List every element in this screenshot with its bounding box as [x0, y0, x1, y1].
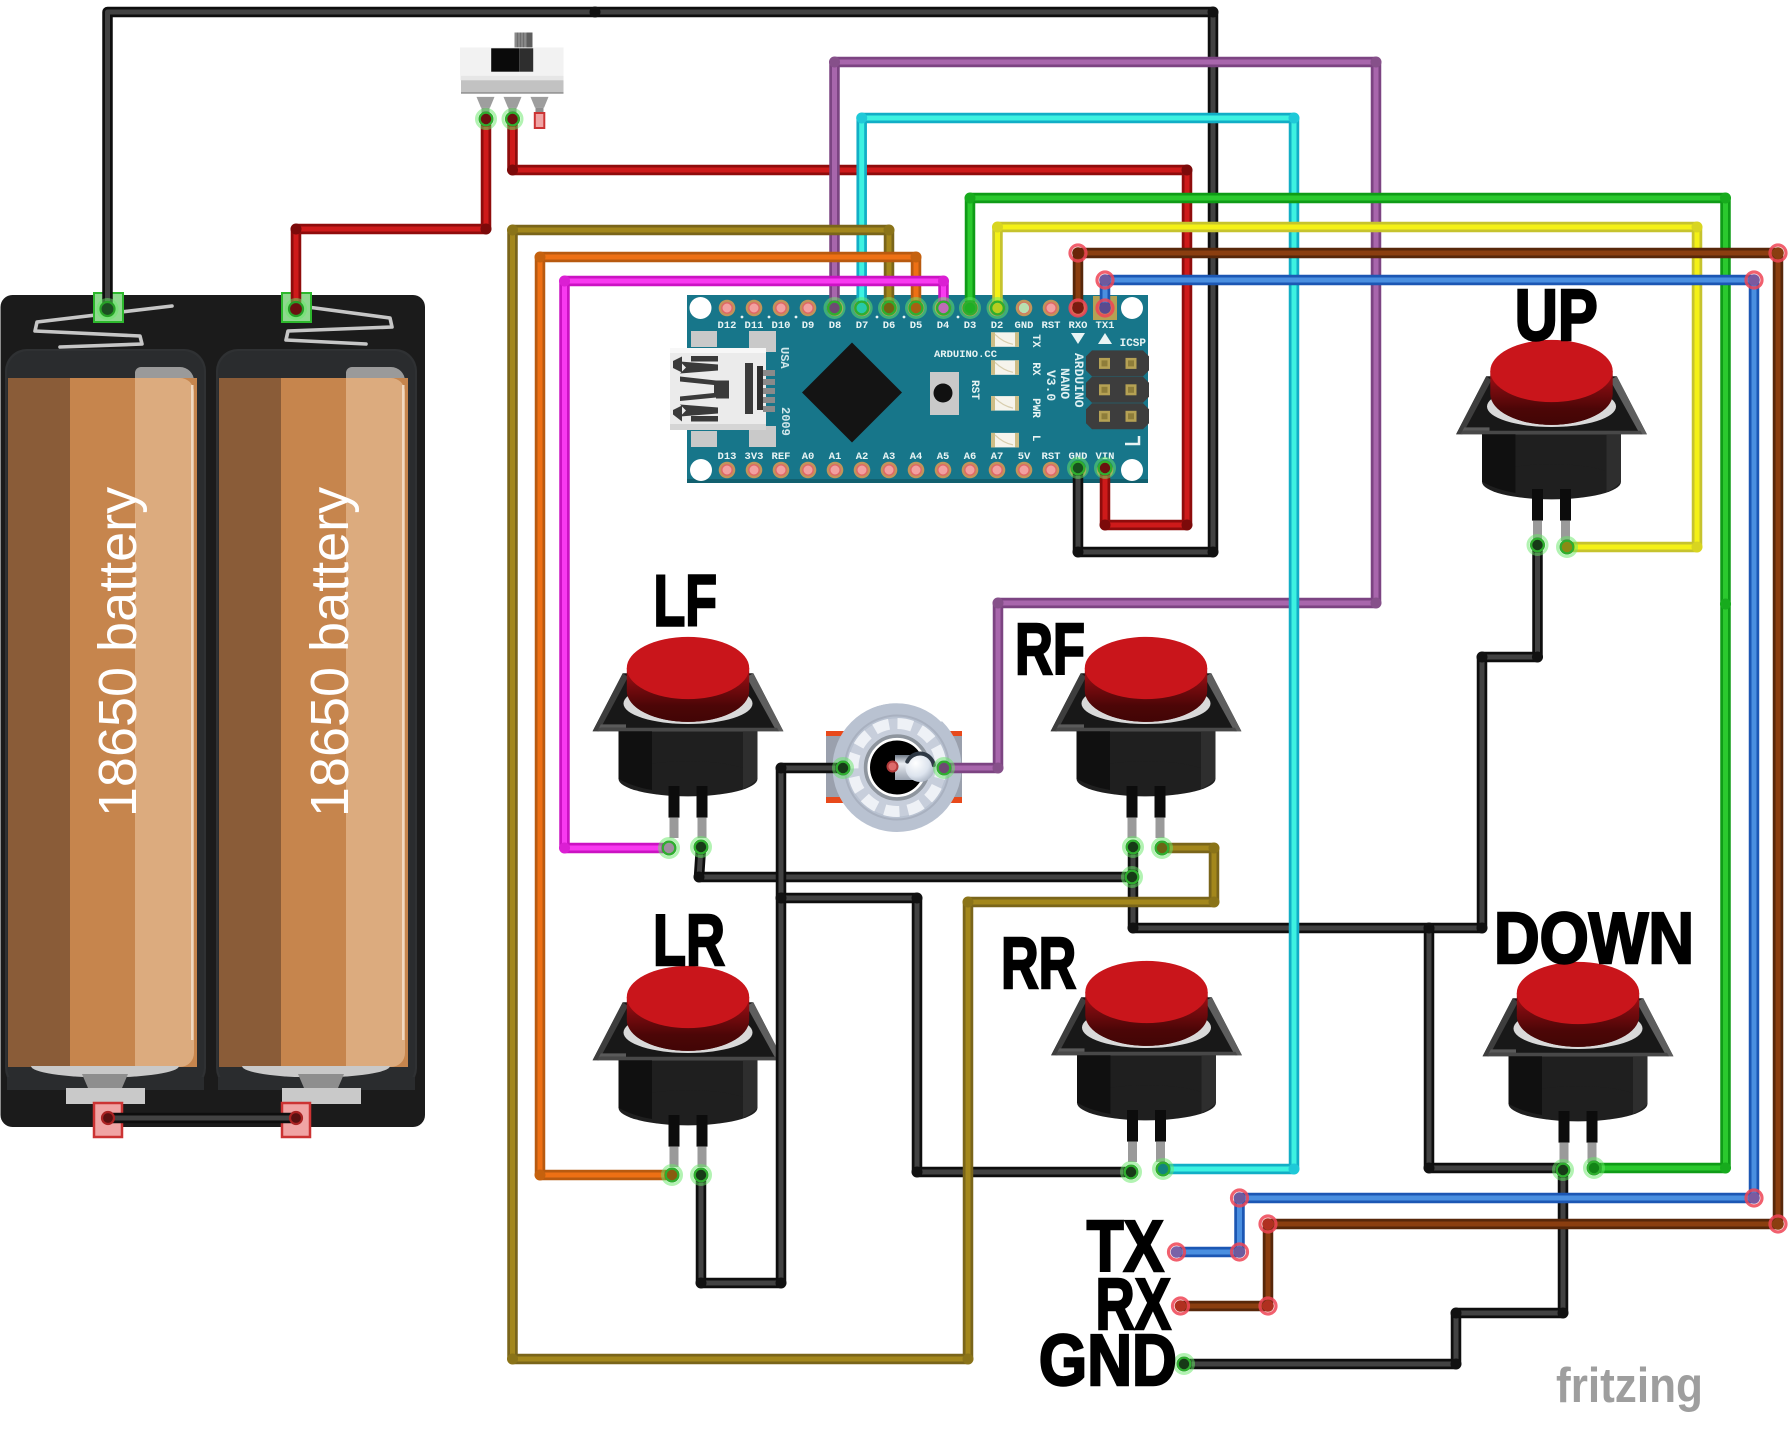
svg-text:A4: A4 [910, 451, 923, 463]
battery top terminal battery1 [35, 293, 172, 347]
wire cyan D7 to RR leg2 [862, 118, 1294, 1169]
slide switch pin3 connector (unconnected) [535, 113, 545, 128]
Arduino ATmega chip (black diamond) [802, 343, 902, 443]
svg-text:D7: D7 [856, 320, 869, 332]
svg-text:18650 battery: 18650 battery [300, 487, 360, 817]
svg-text:D10: D10 [772, 320, 791, 332]
slide switch pin 2 [504, 97, 522, 115]
svg-text:RST: RST [1042, 320, 1061, 332]
pushbutton LF [593, 637, 784, 838]
Arduino pin labels top row [718, 316, 1115, 344]
battery terminal contact circles [101, 302, 304, 1124]
toggle switch (center) [826, 702, 962, 832]
svg-text:A1: A1 [829, 451, 842, 463]
svg-text:D2: D2 [991, 320, 1004, 332]
pushbutton UP [1456, 340, 1647, 541]
svg-text:D8: D8 [829, 320, 842, 332]
wire red slide switch pin2 to Arduino VIN [513, 119, 1188, 525]
wire blue TX1 to TX terminal [1105, 280, 1754, 1252]
Arduino USB mounting pads [691, 331, 776, 447]
svg-text:ARDUINO: ARDUINO [1071, 353, 1086, 408]
svg-text:RST: RST [1042, 451, 1061, 463]
svg-text:GND: GND [1015, 320, 1034, 332]
svg-text:USA: USA [777, 347, 791, 369]
18650 battery cell 1 [5, 349, 206, 1090]
svg-text:D5: D5 [910, 320, 923, 332]
wire yellow D2 to UP leg2 [998, 227, 1698, 547]
svg-text:ARDUINO.CC: ARDUINO.CC [934, 349, 998, 361]
svg-text:5V: 5V [1018, 451, 1031, 463]
svg-text:fritzing: fritzing [1556, 1359, 1703, 1413]
svg-text:PWR: PWR [1029, 398, 1041, 418]
Arduino LEDs TX RX PWR L [991, 332, 1041, 447]
svg-text:RF: RF [1015, 610, 1085, 690]
pushbutton RR [1051, 961, 1242, 1162]
wire red battery2-pos to slide switch pin1 [296, 119, 486, 309]
svg-text:V3.0: V3.0 [1043, 370, 1058, 401]
pushbutton DOWN [1483, 962, 1674, 1163]
Arduino RST button [930, 372, 980, 415]
svg-text:A3: A3 [883, 451, 896, 463]
svg-text:D11: D11 [745, 320, 764, 332]
svg-text:RX: RX [1029, 362, 1041, 376]
svg-text:RR: RR [1001, 924, 1076, 1004]
selected wire bend points (red rings) [1070, 245, 1786, 1314]
Arduino silkscreen USA / 2009 [777, 347, 792, 436]
wire black battery1-neg to Arduino GND pin [108, 12, 1214, 552]
battery top terminal battery2 [282, 293, 392, 344]
svg-text:A6: A6 [964, 451, 977, 463]
wire green D3 to DOWN leg2 [970, 198, 1726, 1168]
svg-text:D13: D13 [718, 451, 737, 463]
svg-text:L: L [1029, 435, 1041, 442]
wire purple D8 to toggle switch right pin [835, 62, 1377, 768]
battery holder (2x18650) [1, 295, 426, 1127]
svg-text:REF: REF [772, 451, 791, 463]
svg-text:D4: D4 [937, 320, 950, 332]
Arduino pin labels bottom row [718, 451, 1115, 463]
wire brown RX0 to RX terminal [1078, 253, 1778, 1306]
slide switch pin 3 [531, 97, 549, 115]
battery bottom terminals [66, 1074, 361, 1137]
Arduino pin pads top row [719, 296, 1117, 320]
wire black junction to DOWN leg1 [1429, 928, 1563, 1168]
svg-text:D9: D9 [802, 320, 815, 332]
slide switch SW1 [460, 33, 564, 94]
svg-text:D6: D6 [883, 320, 896, 332]
connection rings (green) [98, 110, 1604, 1374]
pushbutton RF [1051, 637, 1242, 838]
svg-text:RXO: RXO [1069, 320, 1088, 332]
wire black LF leg2 to junction on RF leg1 wire [699, 847, 1132, 877]
svg-text:3V3: 3V3 [745, 451, 764, 463]
svg-text:NANO: NANO [1057, 368, 1072, 399]
wire magenta D4 to LF leg1 [565, 281, 944, 848]
svg-text:TX: TX [1029, 334, 1041, 348]
slide switch pin 1 [477, 97, 495, 115]
svg-text:DOWN: DOWN [1494, 899, 1694, 979]
svg-text:A2: A2 [856, 451, 869, 463]
svg-text:2009: 2009 [778, 407, 792, 436]
svg-text:UP: UP [1515, 276, 1598, 356]
Arduino ICSP header [1086, 338, 1149, 444]
wire orange D5 to LR leg1 [540, 257, 916, 1175]
svg-text:18650 battery: 18650 battery [88, 487, 148, 817]
wire black RF leg1 down-right [1133, 847, 1482, 928]
Arduino mounting holes [690, 297, 1144, 481]
svg-text:GND: GND [1039, 1321, 1177, 1401]
wire black GND terminal to DOWN leg1 [1184, 1170, 1563, 1364]
Arduino mini-USB connector [670, 348, 775, 430]
wire black junction to RR leg1 [781, 898, 1131, 1172]
svg-text:LF: LF [654, 562, 718, 642]
wire black battery series link [108, 1113, 296, 1124]
svg-text:RST: RST [968, 380, 980, 400]
svg-text:TX1: TX1 [1096, 320, 1115, 332]
svg-text:A7: A7 [991, 451, 1004, 463]
pushbutton LR [593, 966, 784, 1167]
svg-text:D3: D3 [964, 320, 977, 332]
Arduino silkscreen ARDUINO NANO V3.0 [1043, 353, 1086, 408]
svg-text:A0: A0 [802, 451, 815, 463]
svg-text:LR: LR [653, 901, 725, 981]
wire olive D6 to RF leg2 [513, 230, 1215, 1359]
svg-text:D12: D12 [718, 320, 737, 332]
wire black UP leg1 down [1482, 545, 1538, 928]
svg-text:A5: A5 [937, 451, 950, 463]
18650 battery cell 2 [216, 349, 417, 1090]
Arduino pin pads bottom row [719, 462, 1114, 479]
wire black toggle left pin to LR leg2 [701, 768, 843, 1283]
Arduino Nano U1 board [687, 295, 1148, 483]
wire bend points [291, 7, 1732, 1370]
svg-text:ICSP: ICSP [1120, 338, 1147, 350]
